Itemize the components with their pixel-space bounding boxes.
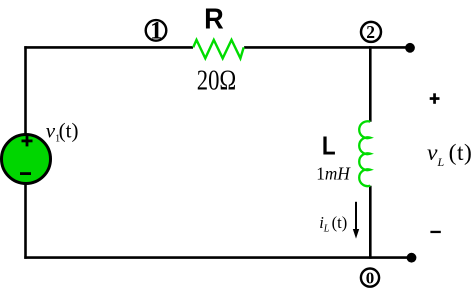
wire: left vertical, top segment (corner to source + terminal) (24, 46, 27, 134)
svg-text:L: L (322, 132, 336, 161)
polarity plus mark (top right) (430, 93, 440, 104)
svg-text:vL(t): vL(t) (427, 140, 472, 169)
inductor L (green coil of 4 arcs) (359, 121, 370, 186)
svg-text:R: R (204, 3, 224, 35)
wire: top horizontal, resistor to node 2 and right terminal (244, 46, 410, 49)
polarity minus mark (bottom right) (430, 231, 440, 233)
svg-text:0: 0 (366, 269, 375, 288)
svg-text:1mH: 1mH (316, 164, 350, 184)
svg-text:1: 1 (150, 18, 163, 45)
terminal dot at node 2 (top right) (405, 43, 415, 53)
wire: right vertical, node 2 to inductor top (369, 46, 372, 122)
svg-text:20Ω: 20Ω (197, 65, 237, 96)
voltage source V1 (circle with + and - marks) (2, 135, 51, 184)
svg-text:2: 2 (366, 22, 375, 42)
wire: bottom horizontal ground rail (24, 256, 411, 259)
node 2 marker (circled 2) (361, 22, 381, 42)
svg-text:v1(t): v1(t) (46, 118, 79, 144)
terminal dot at node 0 (bottom right) (407, 253, 417, 263)
svg-text:iL(t): iL(t) (319, 213, 347, 235)
resistor R (green zigzag) (193, 40, 244, 58)
wire: left vertical, bottom segment (source - terminal to bottom rail) (24, 184, 27, 259)
node 1 marker (circled 1) (146, 18, 167, 45)
wire: top horizontal, node 1 segment (source to resistor) (24, 46, 193, 49)
node 0 marker (circled 0) (361, 269, 379, 288)
current arrow for iL(t) (353, 202, 359, 239)
wire: right vertical, inductor bottom to bottom rail (369, 186, 372, 259)
